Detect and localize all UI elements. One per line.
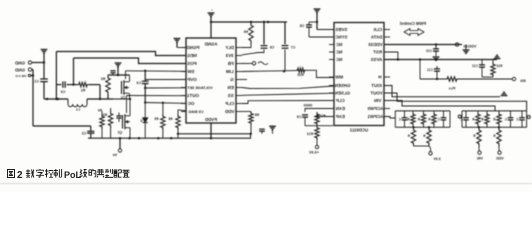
svg-text:R4: R4 xyxy=(98,109,102,113)
svg-text:VIN A-D: VIN A-D xyxy=(15,74,27,78)
svg-text:R10: R10 xyxy=(297,73,303,77)
svg-text:AVSS: AVSS xyxy=(371,57,383,62)
svg-text:R1: R1 xyxy=(81,89,86,93)
svg-text:ACPW0: ACPW0 xyxy=(367,106,383,111)
svg-text:UCD9112: UCD9112 xyxy=(349,128,368,133)
svg-text:3V3: 3V3 xyxy=(225,53,234,58)
svg-text:GND0: GND0 xyxy=(303,103,312,107)
svg-text:NC: NC xyxy=(335,42,342,47)
svg-text:CLP: CLP xyxy=(225,101,234,106)
svg-text:VOUT: VOUT xyxy=(370,91,383,96)
svg-text:PoL: PoL xyxy=(64,170,82,180)
svg-text:SS: SS xyxy=(228,93,234,98)
svg-text:C4: C4 xyxy=(136,81,141,85)
svg-text:OC: OC xyxy=(187,101,195,106)
svg-text:Q1: Q1 xyxy=(121,95,126,99)
svg-text:R5: R5 xyxy=(154,117,158,121)
svg-text:EAP: EAP xyxy=(336,114,345,119)
svg-text:EN: EN xyxy=(520,79,526,83)
svg-text:+3.3V: +3.3V xyxy=(309,151,319,155)
svg-text:C1: C1 xyxy=(34,80,39,84)
svg-text:R8: R8 xyxy=(255,113,259,117)
svg-text:EN: EN xyxy=(228,85,234,90)
svg-text:SW: SW xyxy=(187,69,195,74)
svg-text:PLn: PLn xyxy=(449,87,455,91)
svg-text:3.3V: 3.3V xyxy=(433,157,441,161)
svg-text:H: H xyxy=(378,75,381,80)
svg-text:VDD33: VDD33 xyxy=(463,44,477,49)
svg-text:GLSEN: GLSEN xyxy=(335,91,350,96)
svg-text:POS: POS xyxy=(187,61,197,66)
svg-text:VIN: VIN xyxy=(477,157,483,161)
svg-text:C7: C7 xyxy=(291,46,296,50)
svg-text:R2: R2 xyxy=(101,77,106,81)
svg-text:R6: R6 xyxy=(168,117,172,121)
svg-text:NC: NC xyxy=(335,57,342,62)
svg-text:L1: L1 xyxy=(76,108,80,112)
svg-text:IOUT: IOUT xyxy=(371,83,382,88)
svg-text:R11: R11 xyxy=(319,114,325,118)
svg-text:R12: R12 xyxy=(307,132,313,136)
svg-text:VDD: VDD xyxy=(496,157,504,161)
svg-text:ACPW1: ACPW1 xyxy=(367,114,383,119)
svg-text:DLY: DLY xyxy=(225,45,234,50)
svg-text:RST: RST xyxy=(373,50,382,55)
svg-text:VDD: VDD xyxy=(224,109,234,114)
svg-text:CS BIAS: CS BIAS xyxy=(188,110,203,114)
svg-text:VOLTAGE SET: VOLTAGE SET xyxy=(187,86,213,90)
svg-text:LIM: LIM xyxy=(226,69,234,74)
svg-text:CLK: CLK xyxy=(372,27,382,32)
svg-text:GHSEN: GHSEN xyxy=(335,83,351,88)
svg-text:EAN: EAN xyxy=(336,106,345,111)
svg-text:C9: C9 xyxy=(297,115,301,119)
svg-text:Q2: Q2 xyxy=(118,131,123,135)
svg-text:C2: C2 xyxy=(82,132,87,136)
svg-text:R9: R9 xyxy=(244,30,248,34)
svg-text:R13: R13 xyxy=(496,64,502,68)
svg-text:AGND: AGND xyxy=(205,42,218,47)
svg-text:GND: GND xyxy=(14,68,25,73)
svg-text:NC: NC xyxy=(335,50,342,55)
svg-text:CLP: CLP xyxy=(336,98,345,103)
svg-text:C8: C8 xyxy=(300,24,305,28)
svg-text:SYNC: SYNC xyxy=(334,35,347,40)
svg-text:MW: MW xyxy=(334,75,343,80)
svg-text:C10: C10 xyxy=(426,49,432,53)
svg-text:Vo: Vo xyxy=(112,153,117,157)
svg-text:C6: C6 xyxy=(270,46,275,50)
svg-text:2: 2 xyxy=(17,170,23,181)
svg-text:PWM Control: PWM Control xyxy=(400,21,426,26)
svg-text:PGND: PGND xyxy=(186,45,200,50)
svg-text:C3: C3 xyxy=(61,90,66,94)
svg-text:C11: C11 xyxy=(427,68,433,72)
svg-text:C12: C12 xyxy=(472,64,478,68)
svg-text:G: G xyxy=(230,77,234,82)
svg-text:FB: FB xyxy=(227,61,234,66)
svg-text:OVP: OVP xyxy=(187,77,197,82)
svg-text:SVBS: SVBS xyxy=(335,27,347,32)
svg-text:PVDD: PVDD xyxy=(205,117,217,122)
svg-text:VIN: VIN xyxy=(374,98,381,103)
svg-text:OUT1: OUT1 xyxy=(187,93,199,98)
svg-text:DATA: DATA xyxy=(370,35,382,40)
svg-text:NEG: NEG xyxy=(187,53,197,58)
svg-text:GND: GND xyxy=(14,61,25,66)
svg-text:VDD33: VDD33 xyxy=(368,42,383,47)
